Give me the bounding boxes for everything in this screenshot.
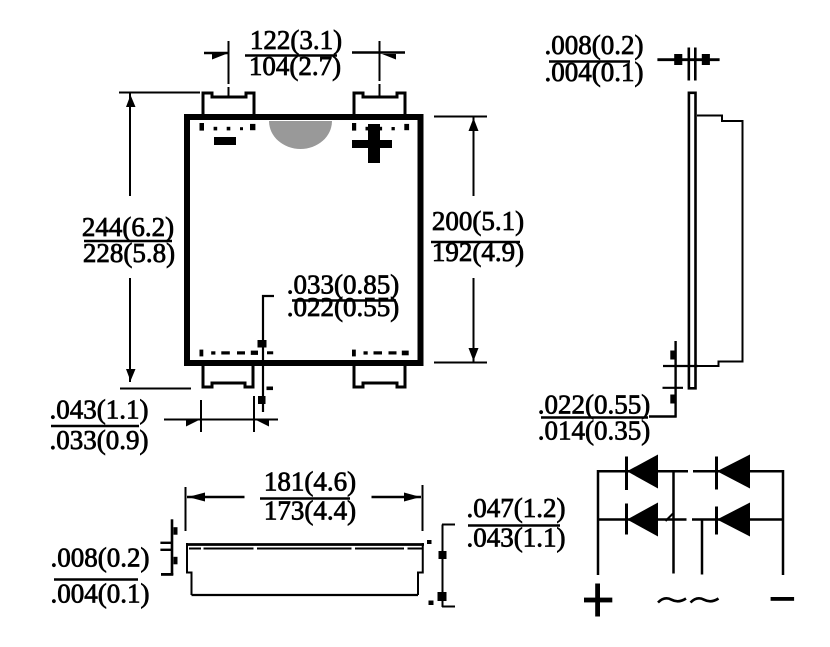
- wire AC node 2 (stub): [701, 520, 704, 575]
- pin 2 tab (bottom-left): [203, 363, 253, 387]
- bracket top: [442, 524, 455, 526]
- svg-text:228(5.8): 228(5.8): [83, 238, 175, 268]
- extension line left: [185, 487, 187, 531]
- reference dot lower: [429, 601, 434, 606]
- arrowhead down: [126, 369, 136, 381]
- svg-text:192(4.9): 192(4.9): [432, 237, 524, 267]
- body right edge with step: [418, 543, 423, 595]
- bracket foot: [442, 606, 455, 608]
- svg-text:.004(0.1): .004(0.1): [545, 57, 644, 87]
- svg-text:104(2.7): 104(2.7): [249, 51, 341, 81]
- bracket vertical: [442, 525, 444, 608]
- extension line right: [422, 485, 424, 531]
- svg-text:.004(0.1): .004(0.1): [51, 579, 150, 609]
- molded body outline: [697, 116, 743, 367]
- svg-text:.014(0.35): .014(0.35): [538, 416, 650, 446]
- svg-text:.033(0.9): .033(0.9): [50, 425, 149, 455]
- dimension line upper segment: [129, 93, 131, 197]
- dimension vertical line: [171, 519, 174, 575]
- wire right rail: [782, 470, 785, 575]
- extension tick right: [253, 396, 255, 432]
- wire left rail: [597, 470, 600, 575]
- arrowhead up: [126, 95, 136, 107]
- svg-text:.043(1.1): .043(1.1): [467, 523, 566, 553]
- dimension line right segment with arrow: [372, 496, 422, 499]
- arrowhead down: [469, 348, 479, 361]
- extension line right: [379, 41, 381, 81]
- arrow dot upper: [670, 351, 676, 360]
- terminal -: [771, 597, 795, 601]
- terminal ~ marks: [658, 598, 719, 602]
- polarity notch (gray half-disc): [269, 121, 332, 149]
- dimension line left with arrow: [657, 58, 719, 61]
- pin 4 tab (top-right): [354, 93, 405, 116]
- pin 3 tab (bottom-right): [354, 363, 405, 387]
- diode D2: [715, 457, 718, 490]
- arrow dot upper: [439, 551, 447, 559]
- arrow lower: [174, 557, 178, 565]
- leader to label: [649, 415, 677, 417]
- reference dot upper: [427, 540, 432, 544]
- hidden pad line top-right (dotted): [352, 123, 356, 131]
- hidden pad line bottom-left (dash-dot): [200, 350, 204, 357]
- extension line top: [119, 92, 200, 94]
- leader foot: [161, 573, 173, 576]
- extension line top: [434, 116, 487, 118]
- dimension line upper segment: [473, 117, 475, 197]
- wire top rail segment 2: [693, 470, 784, 473]
- extension line left: [228, 41, 230, 84]
- terminal +: [595, 584, 600, 617]
- svg-text:181(4.6): 181(4.6): [264, 467, 356, 497]
- wire AC node 1 (mid vertical): [672, 471, 675, 573]
- reference tick lower: [663, 387, 684, 389]
- leader bracket: [263, 296, 274, 412]
- dimension line left segment with arrow: [187, 496, 245, 499]
- svg-text:.047(1.2): .047(1.2): [467, 493, 566, 523]
- dimension line: [164, 419, 278, 421]
- minus polarity mark: [214, 137, 236, 145]
- lead frame plate: [689, 93, 696, 389]
- arrow dot lower: [258, 396, 266, 404]
- wire junction kink: [666, 514, 674, 522]
- hidden pad line bottom-right (dash-dot): [352, 350, 356, 357]
- extension line right: [694, 48, 697, 81]
- wire top rail segment 1: [597, 470, 688, 473]
- dimension line lower segment: [473, 278, 475, 363]
- extension line left: [687, 48, 690, 81]
- svg-text:200(5.1): 200(5.1): [432, 206, 524, 236]
- arrow dot upper: [258, 340, 267, 348]
- pin 4 center tick: [379, 84, 381, 96]
- reference tick upper: [160, 542, 172, 544]
- arrow dot lower: [670, 395, 676, 404]
- arrowhead right-pointing: [186, 420, 200, 427]
- dimension line right segment: [352, 51, 405, 54]
- arrowhead left-pointing: [255, 420, 269, 427]
- hidden pad line top-left (dotted): [200, 123, 205, 131]
- diode D3: [625, 504, 628, 535]
- pin 1 tab (top-left): [203, 93, 254, 116]
- diode D4: [715, 507, 718, 535]
- arrow upper: [174, 527, 178, 535]
- wire second rail segment 1: [597, 518, 687, 521]
- extension tick left: [200, 400, 202, 432]
- arrowhead up: [469, 118, 479, 131]
- small reference dash below body between pins: [267, 387, 274, 391]
- arrowhead right-pointing: [212, 54, 226, 60]
- diode D1: [625, 457, 628, 491]
- arrowhead left-pointing: [382, 54, 396, 60]
- wire second rail segment 2: [692, 518, 784, 521]
- arrow dot lower: [438, 592, 447, 601]
- reference tick lower: [160, 549, 172, 551]
- svg-text:.043(1.1): .043(1.1): [50, 395, 149, 425]
- svg-text:173(4.4): 173(4.4): [264, 496, 356, 526]
- lead frame top line: [186, 543, 424, 546]
- svg-text:.022(0.55): .022(0.55): [287, 292, 399, 322]
- dimension line left segment: [204, 52, 228, 55]
- package body outline: [187, 117, 421, 363]
- extension line bottom: [434, 362, 487, 364]
- body left edge with step: [187, 543, 192, 595]
- plus polarity mark: [368, 124, 380, 163]
- lead frame segmented lower line: [189, 548, 422, 550]
- svg-text:.008(0.2): .008(0.2): [545, 30, 644, 60]
- dimension line right with arrow: [702, 54, 710, 65]
- extension line bottom: [120, 388, 191, 390]
- reference tick upper: [663, 365, 698, 367]
- svg-text:.008(0.2): .008(0.2): [51, 543, 150, 573]
- dimension line lower segment: [129, 278, 131, 382]
- body bottom edge: [192, 594, 419, 596]
- dimension vertical line: [674, 341, 676, 418]
- pin 1 center tick: [228, 87, 230, 97]
